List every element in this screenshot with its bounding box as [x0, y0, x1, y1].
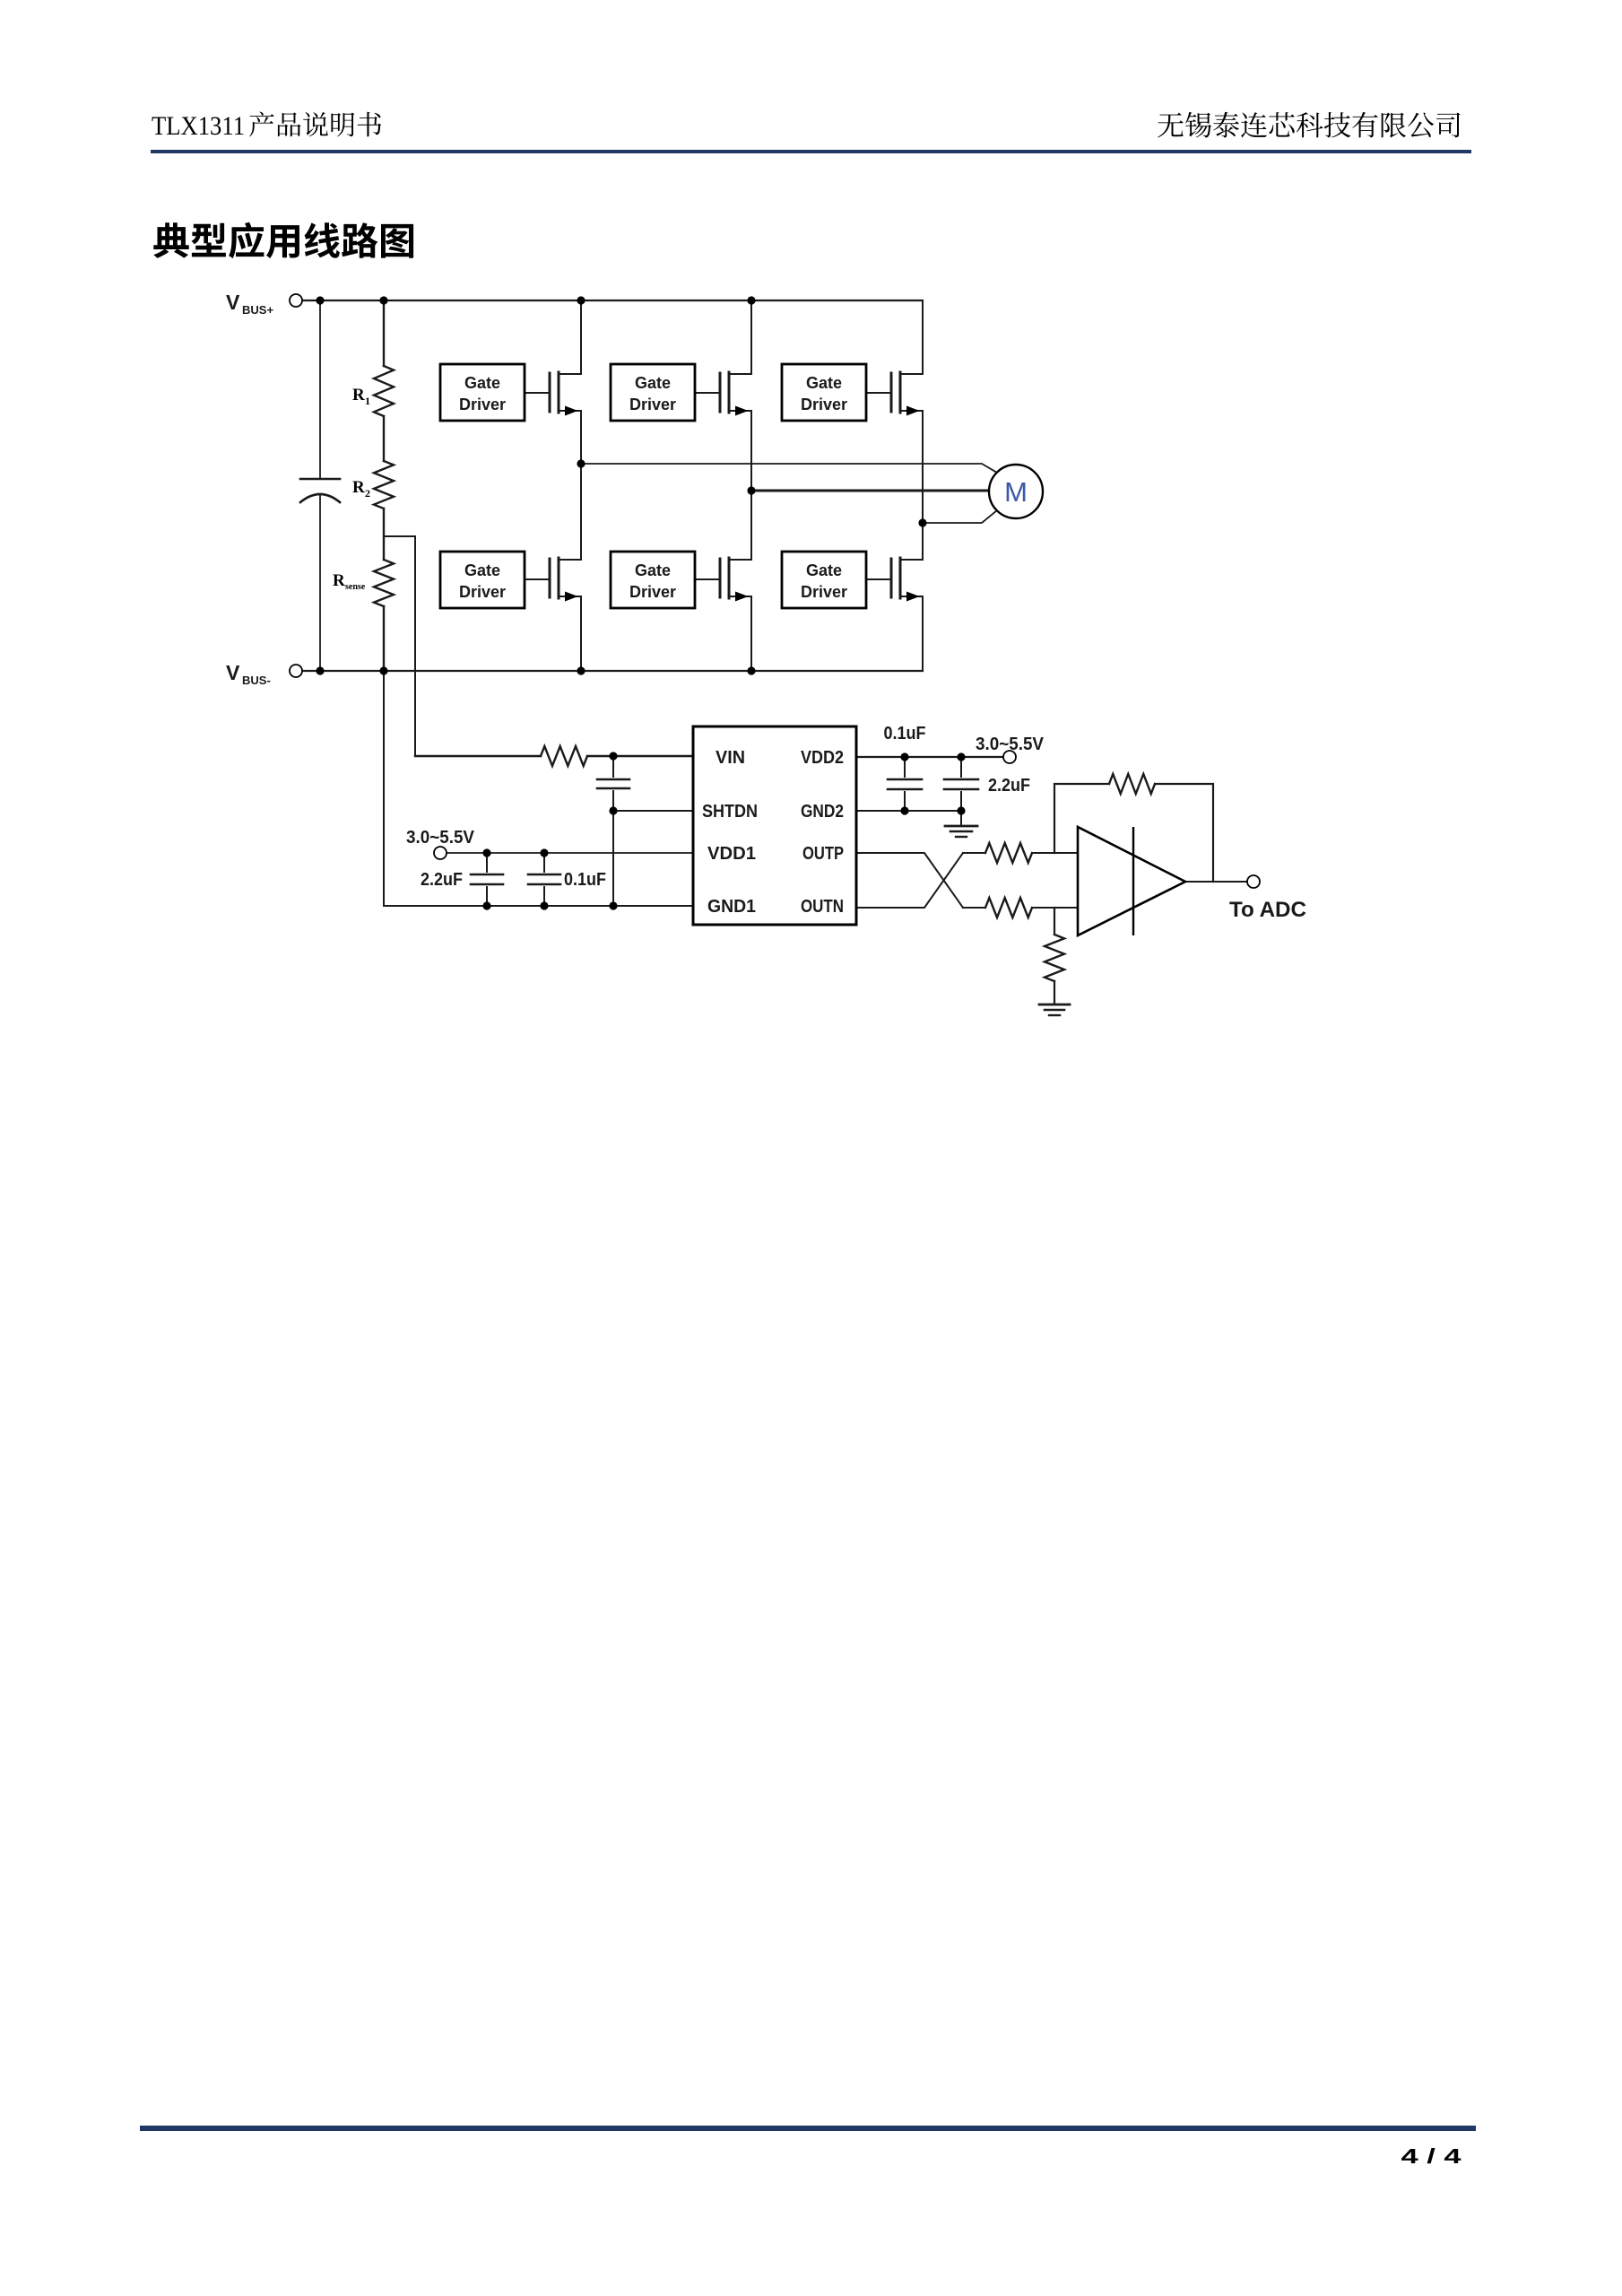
svg-text:2: 2 — [365, 487, 370, 500]
svg-text:GND2: GND2 — [801, 802, 844, 822]
svg-text:2.2uF: 2.2uF — [421, 870, 463, 890]
svg-text:1: 1 — [365, 395, 370, 407]
svg-text:BUS+: BUS+ — [242, 303, 273, 317]
svg-text:0.1uF: 0.1uF — [564, 870, 606, 890]
svg-text:VDD1: VDD1 — [707, 844, 756, 864]
svg-text:V: V — [226, 661, 240, 684]
svg-text:Driver: Driver — [801, 396, 847, 413]
svg-text:Gate: Gate — [464, 561, 500, 579]
svg-text:4 / 4: 4 / 4 — [1401, 2144, 1462, 2168]
svg-text:Gate: Gate — [635, 374, 671, 392]
svg-text:VDD2: VDD2 — [801, 748, 844, 768]
svg-text:To ADC: To ADC — [1229, 898, 1306, 922]
svg-text:0.1uF: 0.1uF — [884, 724, 926, 744]
svg-text:VIN: VIN — [716, 748, 745, 768]
svg-text:R: R — [333, 571, 345, 590]
svg-text:Driver: Driver — [629, 396, 676, 413]
svg-text:TLX1311: TLX1311 — [152, 111, 245, 141]
svg-text:Driver: Driver — [459, 583, 506, 601]
svg-text:Gate: Gate — [806, 374, 842, 392]
svg-text:OUTP: OUTP — [802, 844, 844, 864]
svg-text:M: M — [1004, 476, 1028, 508]
svg-text:Gate: Gate — [464, 374, 500, 392]
svg-text:SHTDN: SHTDN — [702, 802, 758, 822]
svg-text:V: V — [226, 291, 240, 314]
svg-text:OUTN: OUTN — [801, 897, 844, 917]
svg-text:sense: sense — [345, 582, 366, 592]
svg-text:Driver: Driver — [459, 396, 506, 413]
svg-text:R: R — [352, 386, 365, 404]
svg-text:BUS-: BUS- — [242, 674, 271, 687]
svg-text:2.2uF: 2.2uF — [988, 776, 1030, 796]
svg-text:R: R — [352, 478, 365, 497]
svg-text:GND1: GND1 — [707, 897, 756, 917]
svg-text:Gate: Gate — [806, 561, 842, 579]
svg-text:Driver: Driver — [801, 583, 847, 601]
svg-text:3.0~5.5V: 3.0~5.5V — [976, 735, 1045, 754]
svg-text:3.0~5.5V: 3.0~5.5V — [406, 828, 475, 848]
svg-text:Gate: Gate — [635, 561, 671, 579]
svg-text:Driver: Driver — [629, 583, 676, 601]
